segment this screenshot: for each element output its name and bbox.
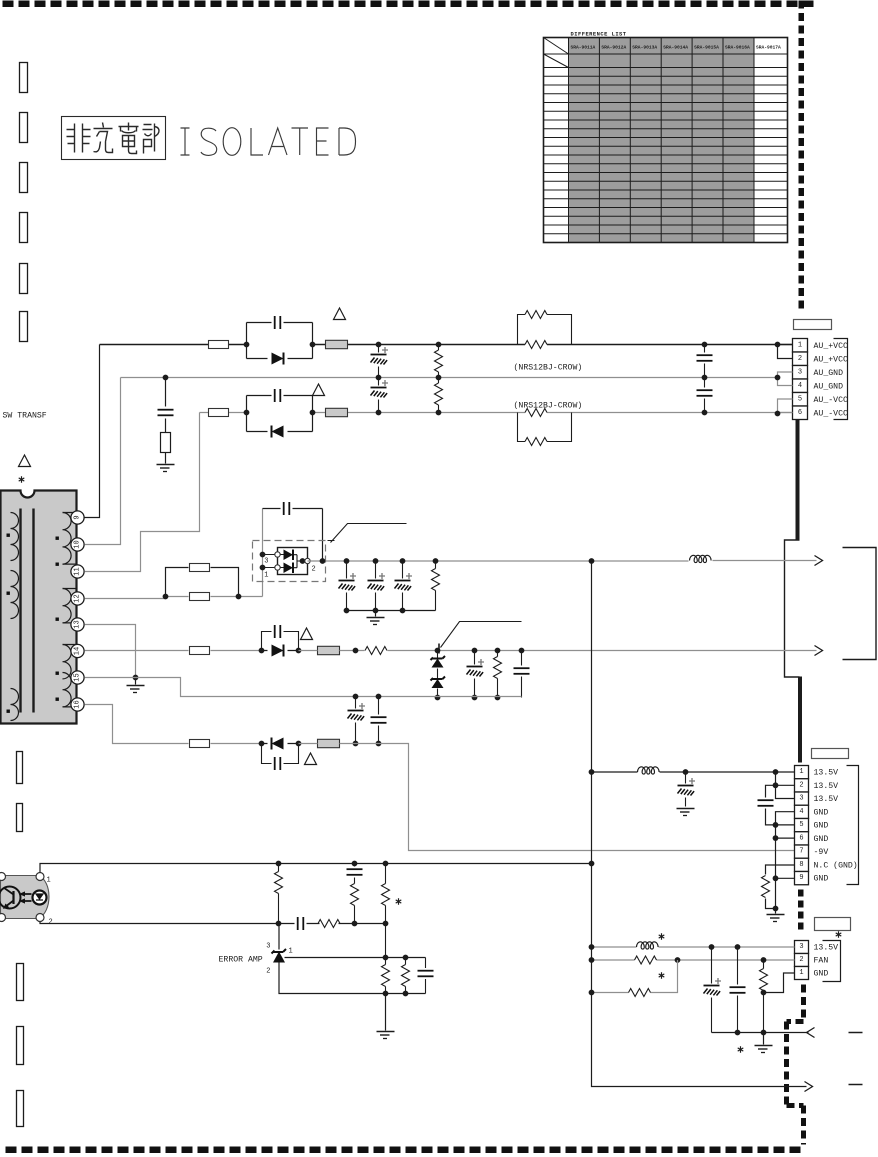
svg-text:4: 4 (798, 382, 802, 390)
transformer pin 11 (71, 565, 84, 578)
wire: opto pin2 rail y923 (40, 922, 386, 924)
bleeder resistor R1 (435, 342, 443, 381)
svg-text:3: 3 (799, 795, 803, 803)
N.C pin8 pulldown resistor (762, 865, 795, 909)
svg-text:-9V: -9V (814, 848, 829, 857)
ground at center tap (127, 675, 145, 693)
series resistor on y923 (318, 920, 340, 928)
transformer pin 15 (71, 671, 84, 684)
asterisk near transformer (19, 476, 25, 482)
svg-text:GND: GND (814, 822, 829, 831)
svg-text:FAN: FAN (814, 957, 829, 966)
cap x425 (418, 958, 434, 994)
svg-text:AU_+VCC: AU_+VCC (814, 355, 848, 364)
svg-text:14: 14 (74, 647, 82, 655)
svg-text:1: 1 (799, 969, 803, 977)
decoupling cap pin2-pin5 (758, 785, 776, 825)
electrolytic cap fan filter (704, 947, 722, 1033)
asterisk for L3 (659, 933, 665, 939)
transformer pin 12 (71, 592, 84, 605)
resistor x278 (275, 864, 283, 924)
wire: FAN pin2 drive (589, 956, 795, 964)
bleeder resistor on 13.5V rail (432, 558, 440, 610)
border: right dashed isolation line (upper) (799, 1, 805, 309)
svg-text:(NRS12BJ-CROW): (NRS12BJ-CROW) (514, 401, 583, 411)
border: left dashed rectangles column (17, 63, 28, 1127)
transformer primary windings (left, cut off) (11, 513, 19, 721)
svg-text:13.5V: 13.5V (814, 944, 839, 953)
electrolytic cap rail696-743 (348, 697, 366, 747)
border: bottom-right dashed jog path (787, 985, 804, 1145)
resistor fan sense (760, 960, 768, 1033)
asterisk (396, 898, 402, 904)
wire: AU GND rail y377 (121, 377, 778, 379)
fusible resistor (gray) rail743 (299, 739, 356, 747)
ground stem error amp (377, 994, 395, 1039)
svg-text:9: 9 (799, 874, 803, 882)
svg-text:1: 1 (47, 877, 51, 885)
ground for CN902 (767, 909, 785, 922)
svg-text:4: 4 (799, 808, 803, 816)
svg-text:1: 1 (289, 948, 293, 956)
connector CN901 ref box (794, 320, 832, 330)
callout pointer to dual diode (328, 524, 407, 543)
svg-text:SRA-9017A: SRA-9017A (756, 45, 781, 51)
wire: pin15 GND rail y696 (85, 678, 522, 697)
svg-text:13: 13 (74, 620, 82, 628)
output connector outline right edge (843, 548, 877, 660)
svg-text:SRA-9014A: SRA-9014A (663, 45, 688, 51)
border: bottom dashed isolation line (6, 1147, 801, 1154)
wire: lower fan branch (589, 960, 678, 997)
svg-text:ERROR AMP: ERROR AMP (219, 956, 263, 965)
optocoupler pin 1 (36, 873, 51, 885)
rectifier D5 with snubber cap below (259, 738, 302, 771)
fuse F1 on +VCC rail (209, 341, 229, 349)
riser to dual diode anodes (262, 509, 264, 597)
asterisk (659, 972, 665, 978)
snubber cap over dual diode (263, 502, 323, 561)
svg-text:GND: GND (814, 808, 829, 817)
fuse F4 (190, 740, 210, 748)
electrolytic cap C2 (GND to -VCC) (371, 378, 389, 416)
resistor x385 (382, 864, 390, 958)
cap rail696-743 (371, 697, 387, 747)
smoothing caps on 13.5V rail (339, 558, 357, 613)
border: right dashed segment below 9pin connector (798, 890, 804, 930)
cap on rail650 (514, 651, 530, 698)
electrolytic cap on 13.5V feed (677, 772, 696, 816)
arrow: bottom out (805, 1082, 813, 1092)
cap bottom bus + ground (347, 611, 436, 625)
svg-text:11: 11 (74, 567, 82, 575)
svg-text:SRA-9013A: SRA-9013A (632, 45, 657, 51)
svg-text:3: 3 (799, 943, 803, 951)
connector CN903 ref box (815, 918, 851, 931)
optocoupler pin 2 (36, 914, 53, 927)
inductor L2 (638, 767, 660, 774)
wire: AU +VCC rail y344 (100, 344, 793, 346)
border: top dashed isolation line (3, 1, 814, 8)
svg-text:AU_-VCC: AU_-VCC (814, 396, 848, 405)
connector CN903 FAN (795, 941, 839, 980)
arrow: 13.5V out (815, 556, 823, 566)
connector CN902 9pin (795, 766, 858, 885)
GND pins 4-5-6 tie (776, 812, 795, 909)
svg-text:5: 5 (799, 821, 803, 829)
wire: 13.5V to FAN pin3 (592, 946, 795, 948)
connector CN903 bracket (823, 941, 841, 982)
electrolytic cap on rail650 (467, 651, 485, 701)
wire: pin10 to AU GND rail riser (85, 378, 121, 545)
divider resistor x385 (382, 958, 390, 994)
cap+resistor chain x354 (347, 864, 363, 924)
inductor L3 (637, 942, 659, 949)
wire: pin16 to rail y743 (85, 705, 262, 744)
svg-text:1: 1 (798, 341, 802, 349)
svg-text:2: 2 (799, 781, 803, 789)
svg-text:SRA-9011A: SRA-9011A (571, 45, 596, 51)
transformer secondary windings (right) (63, 513, 77, 707)
transformer pin 9 (71, 511, 84, 524)
wire: opto pin1 feedback rail y863 (40, 864, 592, 873)
dual diode D3 (260, 548, 316, 580)
svg-text:3: 3 (798, 368, 802, 376)
svg-text:AU_GND: AU_GND (814, 369, 844, 378)
warning triangle (301, 628, 313, 640)
optocoupler left pins (0, 873, 6, 922)
wire: FAN pin1 GND jog (764, 973, 795, 993)
connector CN901 bracket (834, 339, 848, 420)
svg-text:7: 7 (799, 848, 803, 856)
connector CN901 AU power (793, 339, 848, 420)
fuse F2 on -VCC rail (209, 409, 229, 417)
transformer winding polarity marks (7, 534, 59, 713)
fan filter bottom bus (712, 1032, 809, 1034)
transformer pin 10 (71, 538, 84, 551)
svg-text:8: 8 (799, 861, 803, 869)
wire: 13.5V rail y560 (308, 560, 817, 563)
parallel resistor pair (NRS12BJ-CROW) top (518, 311, 572, 349)
wire: pin11 riser to -VCC rail (85, 413, 200, 572)
arrow: 13.5V out lower (815, 646, 823, 656)
protection zeners (stacked) (431, 644, 446, 701)
series cap on y923 (298, 917, 304, 930)
wire: pin13 center tap to ground (85, 625, 136, 678)
arrow: input from right (807, 1028, 815, 1038)
electrolytic cap C1 (+VCC to GND) (371, 342, 389, 381)
rectifier loop D1: cap + diode (244, 316, 316, 365)
svg-text:9: 9 (74, 515, 82, 519)
error amp shunt regulator (266, 924, 425, 997)
svg-text:DIFFERENCE LIST: DIFFERENCE LIST (571, 32, 627, 38)
table: DIFFERENCE LIST (544, 32, 788, 243)
svg-text:2: 2 (799, 956, 803, 964)
fusible resistor (gray) on +VCC rail (326, 340, 348, 348)
pins 1-2-3 tie (776, 772, 795, 799)
wire: 13.5V vertical distribution x591 (592, 561, 807, 1087)
wire: pin12 to parallel fuses (85, 597, 263, 599)
svg-text:GND: GND (814, 835, 829, 844)
svg-text:2: 2 (266, 968, 270, 976)
inductor L1 on 13.5V rail (690, 555, 712, 562)
svg-text:2: 2 (312, 566, 316, 574)
divider resistor x405 (402, 958, 410, 994)
svg-text:SRA-9012A: SRA-9012A (601, 45, 626, 51)
svg-text:SW TRANSF: SW TRANSF (3, 412, 47, 421)
resistor on rail650 (494, 651, 502, 701)
optocoupler PC901 body (0, 876, 49, 919)
warning triangle near transformer (19, 455, 31, 467)
wire: pin14 rail y650 (85, 650, 262, 652)
parallel fuse loop (163, 564, 242, 601)
ground fan filter (755, 1033, 773, 1053)
transformer pin 13 (71, 618, 84, 631)
rectifier loop D2: cap + diode (244, 389, 316, 438)
svg-text:AU_+VCC: AU_+VCC (814, 342, 848, 351)
svg-text:2: 2 (49, 919, 53, 927)
asterisk near ground (738, 1046, 744, 1052)
svg-text:(NRS12BJ-CROW): (NRS12BJ-CROW) (514, 363, 583, 373)
continuation ticks right edge (849, 1033, 863, 1085)
svg-text:1: 1 (799, 768, 803, 776)
svg-text:AU_-VCC: AU_-VCC (814, 409, 848, 418)
transformer pin 14 (71, 644, 84, 657)
svg-text:N.C (GND): N.C (GND) (814, 860, 858, 870)
svg-text:SRA-9015A: SRA-9015A (694, 45, 719, 51)
warning triangle near D2 (313, 384, 325, 396)
bleeder resistor R2 (435, 378, 443, 416)
svg-text:13.5V: 13.5V (814, 782, 839, 791)
thick harness bus from AU pin6 (796, 420, 800, 540)
svg-text:15: 15 (74, 673, 82, 681)
parallel resistor pair (NRS12BJ-CROW) bottom (518, 409, 572, 446)
fusible resistor (gray) rail650 (299, 646, 356, 654)
connector CN902 ref box (812, 749, 849, 759)
svg-text:3: 3 (266, 943, 270, 951)
cap + resistor to ground from GND rail (157, 375, 175, 472)
wire rail743 to -9V riser (356, 744, 795, 851)
transformer pin 16 (71, 698, 84, 711)
wire rail650 to arrow (438, 650, 817, 652)
cap fan filter (730, 947, 746, 1033)
svg-text:16: 16 (74, 700, 82, 708)
transformer T901 body (1, 491, 77, 724)
svg-text:AU_GND: AU_GND (814, 382, 844, 391)
svg-text:10: 10 (74, 540, 82, 548)
warning triangle (305, 753, 317, 765)
svg-text:13.5V: 13.5V (814, 795, 839, 804)
fusible resistor (gray) on -VCC rail (326, 408, 348, 416)
rectifier D4 with snubber cap above (259, 625, 302, 657)
svg-text:6: 6 (799, 834, 803, 842)
svg-text:12: 12 (74, 594, 82, 602)
asterisk near CN903 (836, 931, 842, 937)
dual diode D3 dashed outline (253, 541, 326, 582)
svg-text:2: 2 (798, 355, 802, 363)
svg-text:3: 3 (264, 558, 268, 566)
wire: AU -VCC rail y412 (200, 412, 793, 414)
label: ISOLATED (181, 128, 356, 156)
connector CN902 bracket (847, 766, 859, 885)
filter cap C3 near connector (697, 342, 713, 381)
wire: pin9 to +VCC rail riser (85, 345, 100, 518)
svg-text:SRA-9016A: SRA-9016A (725, 45, 750, 51)
wires into AU connector (775, 342, 793, 417)
svg-text:6: 6 (798, 409, 802, 417)
wire: 13.5V rail to CN902 pin1 (592, 771, 795, 773)
svg-text:GND: GND (814, 875, 829, 884)
svg-text:GND: GND (814, 970, 829, 979)
series resistor on rail650 (353, 647, 438, 655)
filter cap C4 near connector (697, 378, 713, 416)
svg-text:13.5V: 13.5V (814, 769, 839, 778)
label box: hi-juden-bu (non-charging section) (62, 117, 166, 160)
svg-text:1: 1 (264, 572, 268, 580)
svg-text:5: 5 (798, 395, 802, 403)
warning triangle above D1 (334, 308, 346, 320)
fuse F3 (190, 647, 210, 655)
callout pointer to zeners (441, 622, 522, 648)
